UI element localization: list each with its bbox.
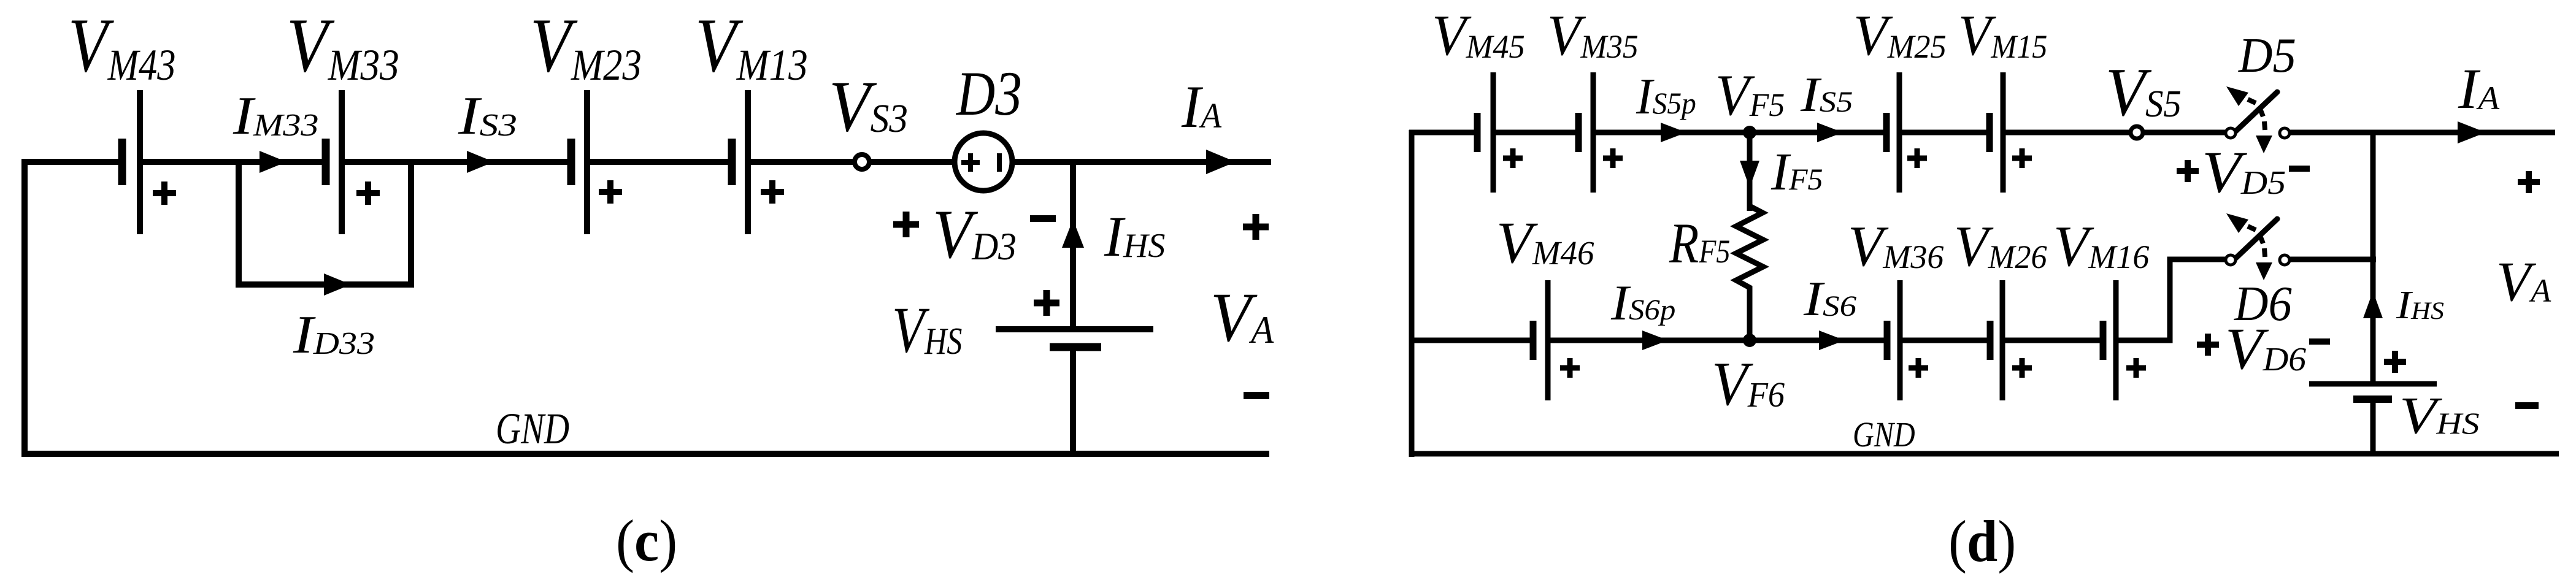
current arrow IHS (c), pointing up xyxy=(1062,220,1084,248)
switch D5 right contact xyxy=(2280,128,2290,138)
battery VM13 long plate xyxy=(745,90,751,234)
switch D5 left contact xyxy=(2226,128,2236,138)
battery VM23 long plate xyxy=(584,90,590,234)
wire: VHS (d) to GND xyxy=(2370,399,2376,454)
plus of VD3 xyxy=(893,212,919,237)
wire: VM45 to VM35 xyxy=(1493,130,1578,136)
plus of VD5 xyxy=(2177,160,2199,182)
wire: D3 to right end with IHS junction xyxy=(1012,159,1271,165)
wire: VM43 to VM33 xyxy=(140,159,326,165)
svg-text:GND: GND xyxy=(496,405,569,454)
wire: VM36 to VM26 xyxy=(1900,338,1990,343)
wire: ID33 loop left vertical xyxy=(236,162,242,285)
terminal circle VS3 xyxy=(855,155,869,169)
plus of VM25 xyxy=(1907,148,1927,168)
switch D6 arc arrowhead lower xyxy=(2256,262,2272,280)
wire: (d) IHS vertical from top rail to VHS xyxy=(2370,132,2376,382)
wire: VM25 to VM15 xyxy=(1899,130,1990,136)
battery VM46 long plate xyxy=(1545,280,1551,400)
D3 internal bar xyxy=(997,153,1002,172)
plus of VM15 xyxy=(2012,148,2032,168)
switch D5 blade xyxy=(2232,92,2277,135)
battery VM15 short plate xyxy=(1986,113,1993,152)
battery VM36 short plate xyxy=(1884,321,1891,360)
current arrow IA (d) xyxy=(2458,121,2486,143)
battery VM45 short plate xyxy=(1474,113,1481,152)
current arrow IS6 xyxy=(1819,331,1845,350)
wire: (d) lower rail from left edge to VM46 xyxy=(1412,338,1533,343)
wire: D6 right contact to IHS vertical xyxy=(2290,257,2376,262)
switch D6 arc arrowhead upper xyxy=(2226,213,2248,233)
switch D6 right contact xyxy=(2280,255,2290,265)
battery VM16 long plate xyxy=(2113,280,2119,400)
node dot VF5 xyxy=(1743,126,1756,139)
current arrow IHS (d), pointing up xyxy=(2363,291,2383,318)
wire: VS5 to D5 left contact xyxy=(2144,130,2226,136)
battery VM25 short plate xyxy=(1883,113,1890,152)
wire: (c) top rail segment from left edge to battery VM43 xyxy=(21,159,123,165)
battery VM46 short plate xyxy=(1530,321,1537,360)
switch D5 arc arrowhead lower xyxy=(2256,136,2272,153)
svg-text:(c): (c) xyxy=(616,509,677,574)
battery VM35 long plate xyxy=(1591,72,1596,193)
wire: (d) bottom GND rail xyxy=(1409,451,2559,457)
plus of VM13 xyxy=(761,180,784,204)
wire: (c) left vertical edge xyxy=(21,159,28,457)
plus of VM26 xyxy=(2012,358,2032,378)
plus of VM46 xyxy=(1560,358,1580,378)
plus of VD6 xyxy=(2197,334,2219,356)
battery VHS (d) short plate (horizontal) xyxy=(2353,395,2392,403)
plus of VM16 xyxy=(2126,358,2146,378)
minus of VD3 xyxy=(1030,215,1056,222)
battery VM35 short plate xyxy=(1575,113,1582,152)
wire: VM33 to VM23 xyxy=(342,159,571,165)
source circle D3 xyxy=(955,133,1012,191)
battery VHS long plate (horizontal) xyxy=(996,326,1153,332)
plus of VHS (c) xyxy=(1034,290,1059,316)
plus of VA (c) xyxy=(1243,214,1269,240)
battery VM23 short plate xyxy=(567,139,575,185)
plus of VM23 xyxy=(599,180,622,204)
wire: (d) left vertical edge xyxy=(1409,130,1415,457)
plus of VM43 xyxy=(153,182,176,205)
minus of VA (d) xyxy=(2515,402,2539,409)
svg-text:(d): (d) xyxy=(1948,510,2016,575)
wire: VM23 to VM13 xyxy=(587,159,732,165)
battery VM36 long plate xyxy=(1897,280,1903,400)
battery VM15 long plate xyxy=(2001,72,2006,193)
minus of VA (c) xyxy=(1244,392,1269,399)
svg-text:D3: D3 xyxy=(955,58,1022,128)
battery VM43 short plate xyxy=(118,139,126,185)
wire: ID33 loop right vertical xyxy=(408,162,414,285)
svg-text:GND: GND xyxy=(1853,415,1915,454)
plus of VM45 xyxy=(1503,148,1523,168)
wire: VM35 to VM25 with VF5 node xyxy=(1593,130,1886,136)
wire: VM26 to VM16 xyxy=(2002,338,2103,343)
plus of VM35 xyxy=(1603,148,1623,168)
current arrow IS5p xyxy=(1661,123,1686,142)
wire: VM15 to VS5 terminal xyxy=(2003,130,2129,136)
current arrow IM33 xyxy=(260,151,286,173)
wire: VM13 to VS3 terminal xyxy=(748,159,854,165)
battery VM26 short plate xyxy=(1987,321,1994,360)
current arrow IF5, pointing down xyxy=(1740,161,1759,188)
switch D6 actuation dashed arc xyxy=(2248,226,2265,257)
minus of VD6 xyxy=(2309,338,2330,345)
switch D5 arc arrowhead upper xyxy=(2226,86,2248,106)
wire: VM46 to VM36 with VF6 node xyxy=(1548,338,1887,343)
current arrow IA (c) xyxy=(1206,150,1236,174)
svg-text:D5: D5 xyxy=(2238,28,2296,83)
current arrow ID33 xyxy=(324,273,351,296)
wire: RF5 to VF6 node xyxy=(1747,291,1753,340)
battery VM13 short plate xyxy=(728,139,736,185)
battery VM33 long plate xyxy=(339,90,345,234)
wire: VM16 right then up to D6 level xyxy=(2116,259,2226,340)
node dot VF6 xyxy=(1743,334,1756,347)
current arrow IS6p xyxy=(1642,331,1668,350)
D3 internal plus xyxy=(961,153,980,172)
plus of VHS (d) xyxy=(2384,351,2406,373)
plus of VM33 xyxy=(356,182,380,205)
battery VM26 long plate xyxy=(2000,280,2005,400)
wire: VF5 vertical with resistor RF5 xyxy=(1747,132,1753,211)
switch D6 left contact xyxy=(2226,255,2236,265)
battery VM16 short plate xyxy=(2100,321,2107,360)
battery VHS short plate (horizontal) xyxy=(1050,343,1101,351)
current arrow IS3 xyxy=(467,151,494,173)
wire: ID33 loop bottom xyxy=(236,281,414,288)
wire: D5 right contact to right end, IHS junction xyxy=(2290,130,2555,136)
current arrow IS5 xyxy=(1817,123,1843,142)
switch D5 actuation dashed arc xyxy=(2248,99,2265,130)
battery VM43 long plate xyxy=(137,90,143,234)
battery VM45 long plate xyxy=(1491,72,1496,193)
battery VHS (d) long plate (horizontal) xyxy=(2309,381,2437,387)
plus of VM36 xyxy=(1909,358,1928,378)
battery VM25 long plate xyxy=(1897,72,1902,193)
wire: VS3 terminal to D3 source xyxy=(870,159,955,165)
minus of VD5 xyxy=(2289,166,2310,172)
wire: VHS to GND xyxy=(1070,347,1076,454)
switch D6 blade xyxy=(2232,219,2277,262)
wire: IHS vertical branch xyxy=(1070,162,1076,329)
plus of VA (d) xyxy=(2518,171,2540,193)
resistor RF5 zigzag xyxy=(1736,206,1763,295)
wire: (c) bottom GND rail xyxy=(21,451,1269,457)
terminal circle VS5 xyxy=(2131,126,2143,139)
wire: (d) top rail from left edge to VM45 xyxy=(1409,130,1477,136)
battery VM33 short plate xyxy=(322,139,330,185)
